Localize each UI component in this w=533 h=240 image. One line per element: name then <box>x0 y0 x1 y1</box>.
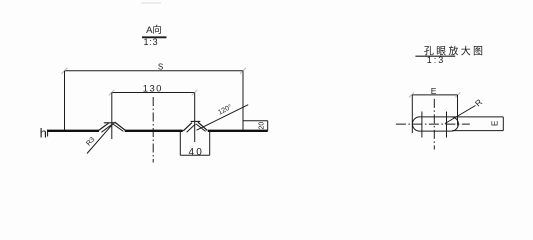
130 right extension line <box>194 93 196 143</box>
label h <box>40 126 48 141</box>
dimension E (right, rotated) <box>452 117 503 131</box>
slot (stadium) outline <box>412 117 458 131</box>
right notch (dimple) <box>183 121 207 132</box>
left notch (dimple) <box>98 122 125 132</box>
E left extension line <box>411 95 413 133</box>
svg-text:120°: 120° <box>217 103 234 117</box>
leader 120deg <box>197 103 249 130</box>
svg-text:40: 40 <box>189 147 205 158</box>
svg-text:1:3: 1:3 <box>144 37 159 47</box>
svg-text:A向: A向 <box>146 24 162 36</box>
plate segment middle <box>125 130 183 132</box>
svg-text:S: S <box>158 63 163 72</box>
svg-text:R3: R3 <box>85 136 96 147</box>
dimension S <box>62 63 247 74</box>
dimension E (top) <box>409 86 460 98</box>
svg-text:E: E <box>491 121 500 126</box>
title hole-detail <box>415 45 485 65</box>
leader R <box>445 97 484 124</box>
dimension 40 <box>180 132 209 159</box>
leader R3 <box>85 123 114 154</box>
slot right cross line <box>446 112 448 138</box>
S left extension line <box>64 71 66 131</box>
faint scan mark <box>141 2 161 4</box>
svg-text:E: E <box>431 86 437 96</box>
slot horizontal centerline (dash-dot) <box>396 123 470 125</box>
slot vertical centerline (dash-dot) <box>433 99 435 150</box>
svg-text:R: R <box>473 97 484 109</box>
title A-view <box>142 24 167 47</box>
slot left cross line <box>421 112 423 138</box>
dimension 20 (right end, rotated) <box>243 121 268 131</box>
svg-text:20: 20 <box>259 122 266 130</box>
S right extension line <box>242 71 244 131</box>
svg-text:h: h <box>40 126 47 141</box>
svg-text:130: 130 <box>143 83 163 94</box>
130 left extension line <box>111 93 113 140</box>
plate segment right <box>208 130 268 132</box>
center line (dash-dot) <box>152 97 154 163</box>
dimension 130 <box>109 83 198 95</box>
plate segment left <box>47 130 99 132</box>
svg-text:1:3: 1:3 <box>427 55 446 65</box>
E right extension line <box>457 95 459 126</box>
